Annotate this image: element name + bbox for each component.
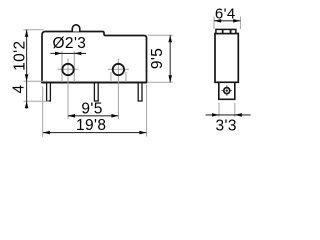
dimension line 19'8 xyxy=(43,132,146,134)
screw tick right xyxy=(230,90,232,92)
terminal pin 2 xyxy=(94,83,98,102)
extension line: top of body for 10'2 xyxy=(24,29,44,31)
crosshair horizontal left hole xyxy=(57,68,78,70)
dimension line 9'5 bottom (between hole centers) xyxy=(68,115,118,117)
arrow up tip 10'2 top xyxy=(25,30,29,37)
body bottom edge redraw over pin tops xyxy=(42,82,147,84)
extension line: body bottom right for 9'5 side xyxy=(148,81,173,83)
extension line: block left for 3'3 xyxy=(218,103,220,118)
terminal pin 3 xyxy=(138,83,142,102)
extension line: body bottom level shared by 10'2 and 4 xyxy=(24,80,48,82)
arrow up tip 9'5 top xyxy=(168,35,172,42)
left mounting hole xyxy=(62,64,73,75)
extension line: end view left for 6'4 xyxy=(213,17,215,30)
screw tick top xyxy=(226,85,228,87)
extension line: left hole left edge for diameter 2'3 xyxy=(61,51,63,82)
svg-text:10'2: 10'2 xyxy=(11,40,28,70)
top plate divider bar right xyxy=(230,29,232,33)
dimension line 3'3 xyxy=(206,114,251,116)
svg-text:Ø2'3: Ø2'3 xyxy=(52,35,86,52)
arrow right tip 9'5 bottom right xyxy=(111,114,118,118)
dimension line 9'5 side (vertical) xyxy=(169,35,171,82)
arrow right tip 19'8 xyxy=(139,131,146,135)
arrow left tip at block right edge xyxy=(235,113,242,117)
svg-text:3'3: 3'3 xyxy=(215,118,236,135)
switch body outline (side view) xyxy=(42,32,147,83)
arrow left tip 19'8 xyxy=(43,131,50,135)
svg-text:9'5: 9'5 xyxy=(149,48,166,69)
arrow right tip at block left edge xyxy=(212,113,219,117)
top plate divider bar left xyxy=(222,29,224,33)
end view body rectangle xyxy=(215,34,238,83)
dimension line 10'2 and 4 (vertical, left) xyxy=(26,30,28,109)
push button on body top xyxy=(72,25,80,32)
right hole right edge projection line xyxy=(125,72,127,82)
arrow up tip 4 bottom (outside, pointing up) xyxy=(25,101,29,108)
extension line: left hole right edge for diameter 2'3 xyxy=(73,51,75,82)
arrow down tip 10'2 bottom / 4 top xyxy=(25,74,29,81)
extension line: pin bottom level for 4 xyxy=(24,100,50,102)
right hole left edge projection line xyxy=(110,72,112,82)
arrow right tip at left hole edge xyxy=(55,52,62,56)
right mounting hole xyxy=(113,64,124,75)
dimension line 6'4 xyxy=(214,20,240,22)
screw tick left xyxy=(222,90,224,92)
terminal screw circle xyxy=(224,88,230,94)
arrow left tip 6'4 xyxy=(214,19,221,23)
arrow left tip 9'5 bottom left xyxy=(68,114,75,118)
crosshair horizontal right hole xyxy=(108,68,129,70)
extension line: body right for 19'8 xyxy=(146,85,148,137)
screw tick bottom xyxy=(226,94,228,96)
svg-text:6'4: 6'4 xyxy=(215,5,236,22)
svg-text:4: 4 xyxy=(11,84,28,93)
extension line: block right for 3'3 xyxy=(234,103,236,118)
extension line: body left for 19'8 xyxy=(42,87,44,138)
dimension line diameter 2'3 xyxy=(51,52,87,54)
extension line: end view right for 6'4 xyxy=(239,17,241,30)
extension line: body top right for 9'5 side xyxy=(148,34,173,36)
end view top plate xyxy=(216,29,236,33)
terminal pin 1 xyxy=(47,83,51,102)
crosshair vertical left hole / extension to bottom 9'5 xyxy=(67,58,69,119)
terminal screw center dot xyxy=(226,90,228,92)
arrow right tip 6'4 xyxy=(233,19,240,23)
svg-text:19'8: 19'8 xyxy=(76,117,106,134)
svg-text:9'5: 9'5 xyxy=(81,100,102,117)
arrow down tip 9'5 bottom xyxy=(168,75,172,82)
arrow left tip at right hole edge xyxy=(74,52,81,56)
crosshair vertical right hole / extension to bottom 9'5 xyxy=(117,58,119,119)
end view terminal block xyxy=(219,82,235,99)
